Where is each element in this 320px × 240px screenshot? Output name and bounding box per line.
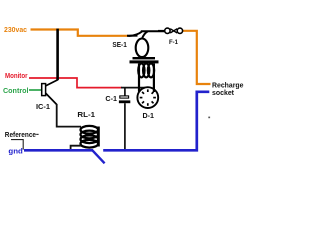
svg-text:F-1: F-1 bbox=[169, 39, 178, 46]
svg-text:Control: Control bbox=[3, 88, 29, 95]
svg-text:Reference: Reference bbox=[5, 132, 36, 139]
svg-text:Monitor: Monitor bbox=[5, 73, 28, 80]
svg-text:SE-1: SE-1 bbox=[112, 42, 126, 49]
svg-text:D-1: D-1 bbox=[143, 113, 155, 120]
svg-text:Recharge: Recharge bbox=[212, 82, 244, 89]
svg-text:socket: socket bbox=[212, 90, 235, 97]
svg-text:C-1: C-1 bbox=[105, 96, 117, 103]
svg-text:RL-1: RL-1 bbox=[77, 112, 95, 119]
svg-text:230vac: 230vac bbox=[4, 27, 27, 34]
svg-text:IC-1: IC-1 bbox=[36, 104, 50, 111]
svg-text:gnd: gnd bbox=[8, 147, 23, 156]
